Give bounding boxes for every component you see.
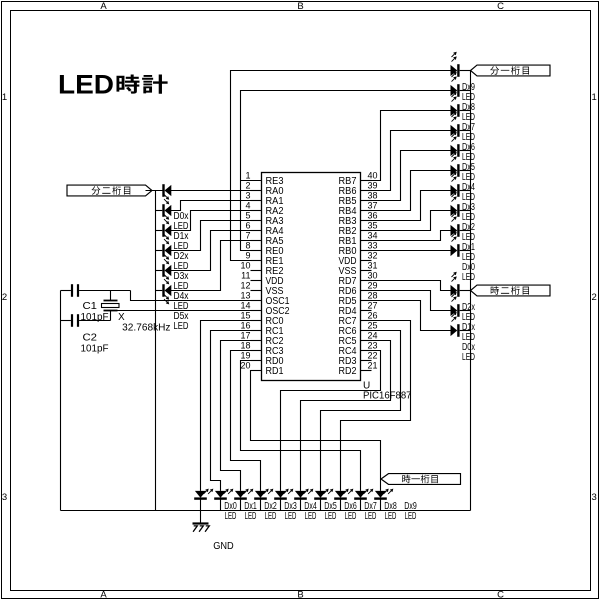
wire ground rail [61, 510, 471, 512]
svg-text:A: A [100, 1, 107, 12]
svg-text:38: 38 [368, 190, 378, 200]
svg-text:LED: LED [462, 352, 475, 363]
svg-text:6: 6 [245, 220, 250, 230]
pin 36 RB3 [339, 210, 378, 227]
svg-text:30: 30 [368, 270, 378, 280]
svg-text:8: 8 [245, 240, 250, 250]
pin 21 RD2 [339, 360, 378, 377]
wire left cathode bus [155, 191, 157, 511]
wire crystal bottom stub [110, 311, 112, 321]
wire pin15 RC0 to bottom Dx0 [201, 321, 262, 491]
wire Dx3 cathode to bus [460, 190, 471, 192]
pin 4 RA2 [245, 200, 283, 217]
svg-text:25: 25 [368, 320, 378, 330]
wire pin35 RB2 to Dx2 [361, 211, 451, 231]
wire Dx9 cathode to rail [380, 499, 382, 510]
wire D1x to RA1 [171, 201, 262, 211]
wire pin34 RB1 to Dx1 [361, 231, 451, 241]
svg-text:C: C [497, 590, 504, 600]
pin 17 RC2 [240, 330, 283, 347]
svg-text:21: 21 [368, 360, 378, 370]
LED D0x [451, 312, 476, 363]
wire Dx2 cathode to bus [460, 210, 471, 212]
wire Dx1 cathode to rail [220, 499, 222, 510]
capacitor C2 101pF [72, 314, 109, 354]
svg-text:40: 40 [368, 170, 378, 180]
wire D5x to RA5 [171, 241, 262, 291]
pin 34 RB1 [339, 230, 378, 247]
wire pin25 RC6 to bottom Dx6 [321, 331, 401, 491]
svg-text:32: 32 [368, 250, 378, 260]
wire pin19 RD0 to bottom Dx8 [241, 361, 361, 491]
LED D3x [164, 244, 189, 292]
pin 32 VDD [339, 250, 378, 267]
svg-text:3: 3 [591, 492, 596, 503]
pin 40 RB7 [339, 170, 378, 187]
pin 19 RD0 [240, 350, 283, 367]
svg-text:19: 19 [240, 350, 250, 360]
LED Dx6 bottom [314, 489, 357, 522]
ground [193, 511, 234, 553]
LED D1x [164, 204, 189, 252]
svg-text:X: X [118, 312, 125, 323]
wire D4x to RA4 [171, 231, 262, 271]
LED Dx8 [451, 72, 476, 123]
svg-text:2: 2 [591, 292, 596, 303]
LED Dx9 bottom [374, 489, 417, 522]
wire Dx5 cathode to bus [460, 150, 471, 152]
wire pin37 RB4 to Dx4 [361, 171, 451, 211]
svg-text:1: 1 [245, 170, 250, 180]
wire C1 to OSC1 net [79, 290, 130, 292]
net label 時二桁目 [471, 285, 551, 296]
pin 16 RC1 [240, 320, 283, 337]
svg-text:5: 5 [245, 210, 250, 220]
svg-text:C: C [497, 1, 504, 12]
svg-text:37: 37 [368, 200, 378, 210]
svg-text:1: 1 [591, 92, 596, 103]
svg-text:27: 27 [368, 300, 378, 310]
svg-text:C2: C2 [83, 333, 98, 344]
wire ground left riser [60, 291, 62, 511]
LED Dx8 bottom [354, 489, 397, 522]
svg-text:39: 39 [368, 180, 378, 190]
LED Dx1 [451, 212, 476, 263]
svg-text:18: 18 [240, 340, 250, 350]
wire pin8 RE0 to Dx8 [241, 91, 451, 251]
svg-text:29: 29 [368, 280, 378, 290]
LED D2x [164, 224, 189, 272]
svg-text:1: 1 [2, 92, 7, 103]
wire C2 left [61, 320, 71, 322]
LED D5x [164, 284, 189, 332]
wire Dx6 cathode to bus [460, 130, 471, 132]
pin 10 RE2 [240, 260, 283, 277]
wire Dx3 cathode to rail [260, 499, 262, 510]
svg-text:33: 33 [368, 240, 378, 250]
net label 分二桁目 [67, 185, 152, 196]
svg-text:14: 14 [240, 300, 250, 310]
title LED時計 [58, 70, 168, 100]
LED Dx7 [451, 92, 476, 143]
wire Dx7 cathode to rail [340, 499, 342, 510]
svg-text:32.768kHz: 32.768kHz [122, 323, 170, 334]
wire C1 left [61, 290, 71, 292]
pin 37 RB4 [339, 200, 378, 217]
pin 9 RE1 [245, 250, 283, 267]
wire crystal top stub [110, 291, 112, 301]
wire Dx5 cathode to rail [300, 499, 302, 510]
pin 25 RC6 [339, 320, 378, 337]
net label 分一桁目 [471, 65, 551, 76]
pin 6 RA4 [245, 220, 283, 237]
crystal X 32.768kHz [102, 301, 171, 334]
LED Dx4 [451, 152, 476, 203]
pin 5 RA3 [245, 210, 283, 227]
LED D1x [451, 292, 476, 343]
pin 24 RC5 [339, 330, 378, 347]
wire Dx9 cathode to bus [460, 70, 471, 72]
svg-text:10: 10 [240, 260, 250, 270]
pin 15 RC0 [240, 310, 283, 327]
svg-text:LED: LED [345, 511, 357, 522]
pin 26 RC7 [339, 310, 378, 327]
wire D2x to RA2 [171, 211, 262, 231]
wire pin18 RC3 to bottom Dx3 [231, 351, 262, 491]
svg-text:4: 4 [245, 200, 250, 210]
pin 35 RB2 [339, 220, 378, 237]
op-amp U1 IC body PIC16F887 [262, 173, 412, 402]
wire Dx2 cathode to rail [240, 499, 242, 510]
LED Dx7 bottom [334, 489, 377, 522]
wire pin20 RD1 to bottom Dx9 [251, 371, 381, 491]
svg-text:GND: GND [213, 541, 234, 552]
svg-text:LED: LED [305, 511, 317, 522]
LED Dx0 [451, 232, 476, 283]
LED Dx9 [451, 52, 476, 103]
wire C2 to OSC2 net [79, 320, 110, 322]
svg-text:35: 35 [368, 220, 378, 230]
svg-text:A: A [100, 590, 107, 600]
wire pin38 RB5 to Dx5 [361, 151, 451, 201]
net label 時一桁目 [381, 474, 461, 485]
LED Dx3 bottom [254, 489, 297, 522]
wire pin36 RB3 to Dx3 [361, 191, 451, 221]
svg-text:13: 13 [240, 290, 250, 300]
wire RE2... pin9 RE1 to Dx9 [231, 71, 451, 261]
svg-text:LED: LED [245, 511, 257, 522]
wire bus to D1x cathode [156, 210, 163, 212]
svg-text:34: 34 [368, 230, 378, 240]
pin 1 RE3 [241, 170, 284, 187]
wire Dx1 cathode to bus [460, 230, 471, 232]
wire pin29 RD6 to D1x [361, 291, 451, 311]
wire bus to D2x cathode [156, 230, 163, 232]
wire Dx8 cathode to bus [460, 90, 471, 92]
svg-text:RD2: RD2 [339, 366, 357, 377]
svg-text:12: 12 [240, 280, 250, 290]
svg-text:LED: LED [58, 70, 114, 100]
wire flag to bus [146, 190, 163, 192]
svg-text:PIC16F887: PIC16F887 [363, 391, 412, 402]
svg-text:LED: LED [265, 511, 277, 522]
LED D2x [451, 272, 476, 323]
wire bus to D3x cathode [156, 250, 163, 252]
svg-text:16: 16 [240, 320, 250, 330]
svg-text:RD1: RD1 [266, 366, 284, 377]
wire right cathode bus [470, 71, 472, 511]
pin 28 RD5 [339, 290, 378, 307]
wire pin28 RD5 to D0x [361, 301, 451, 331]
pin 30 RD7 [339, 270, 378, 287]
pin 20 RD1 [240, 360, 283, 377]
wire pin33 RB0 to Dx0 [361, 250, 451, 252]
svg-text:LED: LED [325, 511, 337, 522]
svg-text:15: 15 [240, 310, 250, 320]
wire pin16 RC1 to bottom Dx1 [211, 331, 262, 491]
svg-text:3: 3 [2, 492, 7, 503]
svg-text:9: 9 [245, 250, 250, 260]
svg-text:2: 2 [245, 180, 250, 190]
svg-text:17: 17 [240, 330, 250, 340]
svg-text:LED: LED [365, 511, 377, 522]
svg-text:LED: LED [225, 511, 237, 522]
wire OSC1 to pin13 [131, 291, 262, 301]
svg-text:B: B [297, 590, 303, 600]
LED Dx2 bottom [234, 489, 277, 522]
wire Dx4 cathode to rail [280, 499, 282, 510]
LED Dx3 [451, 172, 476, 223]
wire Dx8 cathode to rail [360, 499, 362, 510]
wire D3x to RA3 [171, 221, 262, 251]
svg-text:LED: LED [285, 511, 297, 522]
svg-text:2: 2 [2, 292, 7, 303]
pin 14 OSC2 [240, 300, 289, 317]
svg-text:LED: LED [174, 321, 189, 332]
capacitor C1 101pF [72, 284, 109, 323]
wire pin24 RC5 to bottom Dx5 [301, 341, 391, 491]
pin 22 RD3 [339, 350, 378, 367]
svg-text:22: 22 [368, 350, 378, 360]
LED Dx1 bottom [214, 489, 257, 522]
wire bus to D5x cathode [156, 290, 163, 292]
pin 12 VSS [240, 280, 283, 297]
svg-text:3: 3 [245, 190, 250, 200]
pin 8 RE0 [245, 240, 283, 257]
svg-text:28: 28 [368, 290, 378, 300]
wire D1x cathode to bus [460, 310, 471, 312]
pin 31 VSS [339, 260, 378, 277]
svg-text:20: 20 [240, 360, 250, 370]
wire Dx7 cathode to bus [460, 110, 471, 112]
wire Dx6 cathode to rail [320, 499, 322, 510]
wire D0x cathode to bus [460, 330, 471, 332]
wire Dx0 cathode to bus [460, 250, 471, 252]
wire bus to D4x cathode [156, 270, 163, 272]
pin 3 RA1 [245, 190, 283, 207]
svg-text:LED: LED [462, 272, 475, 283]
pin 27 RD4 [339, 300, 378, 317]
pin 7 RA5 [245, 230, 283, 247]
svg-text:LED: LED [405, 511, 417, 522]
svg-text:101pF: 101pF [81, 312, 109, 323]
wire pin23 RC4 to bottom Dx4 [281, 351, 381, 491]
svg-text:LED: LED [385, 511, 397, 522]
wire Dx4 cathode to bus [460, 170, 471, 172]
svg-text:23: 23 [368, 340, 378, 350]
svg-text:36: 36 [368, 210, 378, 220]
svg-text:B: B [297, 1, 303, 12]
svg-text:C1: C1 [83, 301, 98, 312]
LED Dx5 bottom [294, 489, 337, 522]
LED Dx4 bottom [274, 489, 317, 522]
pin 11 VDD [241, 270, 283, 287]
LED Dx6 [451, 112, 476, 163]
LED D4x [164, 264, 189, 312]
pin 38 RB5 [339, 190, 378, 207]
pin 18 RC3 [240, 340, 283, 357]
wire D0x to RA0 [171, 190, 262, 192]
svg-text:31: 31 [368, 260, 378, 270]
pin 33 RB0 [339, 240, 378, 257]
svg-text:26: 26 [368, 310, 378, 320]
LED Dx0 bottom [194, 489, 237, 522]
LED D0x [164, 184, 189, 232]
wire pin17 RC2 to bottom Dx2 [221, 341, 262, 491]
pin 23 RC4 [339, 340, 378, 357]
wire D2x cathode to bus [460, 290, 471, 292]
pin 2 RA0 [245, 180, 283, 197]
svg-text:7: 7 [245, 230, 250, 240]
wire pin40 RB7 to Dx7 [361, 111, 451, 181]
wire pin26 RC7 to bottom Dx7 [341, 321, 411, 491]
pin 29 RD6 [339, 280, 378, 297]
svg-text:24: 24 [368, 330, 378, 340]
LED Dx5 [451, 132, 476, 183]
pin 39 RB6 [339, 180, 378, 197]
pin 13 OSC1 [240, 290, 289, 307]
wire Dx0 cathode to rail [200, 499, 202, 510]
svg-text:101pF: 101pF [81, 344, 109, 355]
wire pin39 RB6 to Dx6 [361, 131, 451, 191]
wire crystal bottom to pin14 OSC2 [118, 310, 262, 312]
wire pin30 RD7 to D2x [361, 281, 451, 291]
LED Dx2 [451, 192, 476, 243]
svg-text:11: 11 [241, 270, 250, 280]
